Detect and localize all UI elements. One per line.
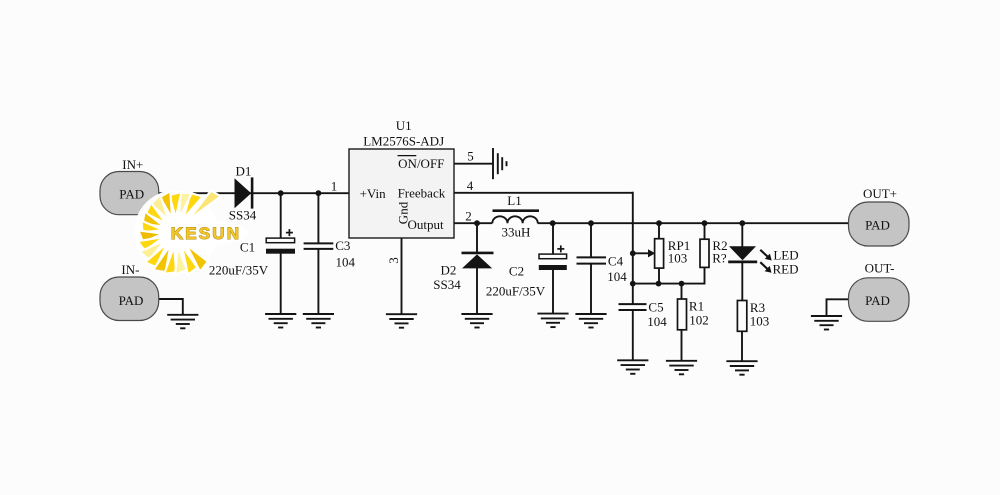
resistor R3 103 xyxy=(737,300,769,331)
wire output rail pin 2 to OUT+ xyxy=(454,222,849,224)
node junction R2 on output rail xyxy=(702,220,708,226)
node junction C4 on output rail xyxy=(588,220,594,226)
ground under R3 xyxy=(726,361,757,375)
svg-text:2: 2 xyxy=(465,209,472,224)
LED RED diode xyxy=(728,246,798,276)
wire bottom feedback rail xyxy=(633,283,705,285)
svg-text:Freeback: Freeback xyxy=(398,185,446,200)
wire LED branch to R3 xyxy=(741,223,743,361)
pin 1 label xyxy=(331,179,338,194)
ground under U1 pin 3 xyxy=(386,314,417,328)
svg-text:103: 103 xyxy=(750,314,770,329)
svg-text:C2: C2 xyxy=(509,264,524,279)
pin 2 label xyxy=(465,209,472,224)
wire U1 pin 5 to chassis ground xyxy=(454,163,493,165)
U1 LM2576S-ADJ body xyxy=(349,118,454,238)
KESUN watermark logo xyxy=(134,190,248,275)
svg-text:Output: Output xyxy=(408,217,445,232)
svg-text:R?: R? xyxy=(712,251,727,266)
inductor L1 33uH xyxy=(492,193,539,240)
wire C3 branch xyxy=(317,193,319,314)
node junction feedback bottom rail left xyxy=(630,281,636,287)
ground at OUT- xyxy=(811,316,842,330)
wire C4 branch xyxy=(590,223,592,314)
svg-text:OUT-: OUT- xyxy=(865,261,895,276)
node junction C2 on output rail xyxy=(550,220,556,226)
svg-text:102: 102 xyxy=(689,313,709,328)
wire feedback net: pin 4 right then down to C5 xyxy=(454,192,633,360)
pin 5 label xyxy=(467,149,474,164)
svg-text:4: 4 xyxy=(467,178,474,193)
ground under C1 xyxy=(265,314,296,328)
svg-text:104: 104 xyxy=(647,314,667,329)
svg-text:PAD: PAD xyxy=(119,293,144,308)
wire C2 branch xyxy=(552,223,554,314)
node junction R1 top xyxy=(679,281,685,287)
wire R1 branch xyxy=(681,284,683,361)
svg-text:LM2576S-ADJ: LM2576S-ADJ xyxy=(363,134,444,149)
capacitor C3 104 xyxy=(304,238,356,269)
node junction D2 on output rail xyxy=(474,220,480,226)
ground under C2 xyxy=(537,314,568,328)
svg-text:C3: C3 xyxy=(335,238,350,253)
wire IN- pad to ground xyxy=(158,299,183,315)
svg-text:Gnd: Gnd xyxy=(396,201,411,224)
svg-text:5: 5 xyxy=(467,149,474,164)
svg-text:C4: C4 xyxy=(608,254,624,269)
node junction wiper on feedback xyxy=(630,250,636,256)
node junction RP1 on output rail xyxy=(656,220,662,226)
ground under C3 xyxy=(303,314,334,328)
pad OUT+ xyxy=(849,186,910,246)
pad IN- xyxy=(100,262,159,320)
resistor R2 R? xyxy=(700,238,728,267)
wire RP1 wiper from feedback xyxy=(633,252,649,254)
node junction C3 on input rail xyxy=(316,190,322,196)
capacitor C5 104 xyxy=(619,300,668,330)
wire RP1 branch xyxy=(658,223,660,283)
pad IN+ xyxy=(100,157,159,215)
svg-text:3: 3 xyxy=(386,257,401,264)
node junction C1 on input rail xyxy=(278,190,284,196)
svg-text:1: 1 xyxy=(331,179,338,194)
resistor R1 102 xyxy=(678,298,709,330)
svg-text:D1: D1 xyxy=(236,163,252,178)
svg-text:33uH: 33uH xyxy=(502,225,531,240)
svg-text:SS34: SS34 xyxy=(229,207,257,222)
wire D2 branch xyxy=(476,223,478,314)
potentiometer RP1 103 xyxy=(648,238,690,268)
svg-text:C1: C1 xyxy=(240,240,255,255)
wire C1 branch xyxy=(280,193,282,314)
svg-text:+Vin: +Vin xyxy=(360,186,387,201)
svg-text:IN+: IN+ xyxy=(122,157,143,172)
ground chassis at U1 pin 5 (rotated) xyxy=(493,148,507,179)
svg-text:IN-: IN- xyxy=(121,262,139,277)
svg-text:RED: RED xyxy=(773,262,799,277)
svg-text:OUT+: OUT+ xyxy=(863,186,897,201)
capacitor C4 104 xyxy=(577,254,628,285)
svg-text:D2: D2 xyxy=(441,263,457,278)
node junction LED on output rail xyxy=(739,220,745,226)
wire OUT- pad to ground xyxy=(827,299,849,316)
svg-text:220uF/35V: 220uF/35V xyxy=(486,284,546,299)
svg-text:PAD: PAD xyxy=(119,186,144,201)
capacitor C2 220uF/35V xyxy=(486,245,567,298)
pad OUT- xyxy=(849,261,910,322)
ground under D2 xyxy=(461,314,492,328)
svg-text:SS34: SS34 xyxy=(433,277,461,292)
node junction RP1 bottom xyxy=(656,281,662,287)
svg-text:104: 104 xyxy=(607,269,627,284)
svg-text:104: 104 xyxy=(336,254,356,269)
svg-text:KESUN: KESUN xyxy=(171,224,242,243)
wire R2 branch xyxy=(704,223,706,284)
pin 4 label xyxy=(467,178,474,193)
svg-text:103: 103 xyxy=(668,250,688,265)
ground under R1 xyxy=(666,361,697,375)
svg-text:ON/OFF: ON/OFF xyxy=(398,156,444,171)
diode D2 SS34 xyxy=(433,253,493,292)
capacitor C1 220uF/35V xyxy=(209,229,295,278)
pin 3 label xyxy=(386,257,401,264)
svg-text:PAD: PAD xyxy=(865,218,890,233)
svg-text:U1: U1 xyxy=(396,118,412,133)
svg-text:PAD: PAD xyxy=(865,293,890,308)
ground at IN- xyxy=(167,315,198,329)
svg-text:C5: C5 xyxy=(648,300,663,315)
diode D1 SS34 xyxy=(229,163,257,222)
ground under C5 xyxy=(617,360,648,374)
svg-text:L1: L1 xyxy=(507,193,521,208)
wire input rail IN+ to U1 pin 1 xyxy=(158,192,349,194)
ground under C4 xyxy=(575,314,606,328)
svg-text:220uF/35V: 220uF/35V xyxy=(209,263,269,278)
svg-text:R1: R1 xyxy=(689,298,704,313)
wire U1 gnd pin 3 to ground xyxy=(401,238,403,314)
svg-text:LED: LED xyxy=(773,248,798,263)
